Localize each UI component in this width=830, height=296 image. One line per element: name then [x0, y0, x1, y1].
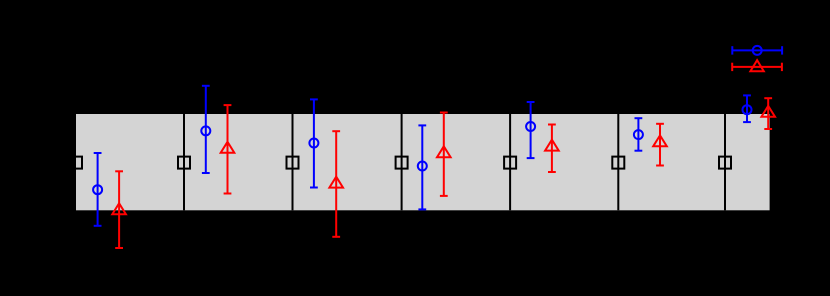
group 5 red error bar	[548, 125, 556, 173]
divider line 5	[617, 114, 619, 210]
square marker 7	[719, 157, 731, 169]
group 2 blue error bar	[202, 86, 210, 173]
group 1 red error bar	[115, 171, 123, 248]
divider line 3	[401, 114, 403, 210]
group 1 red triangle marker	[112, 203, 126, 214]
group 2 blue circle marker	[201, 126, 210, 135]
group 4 red error bar	[440, 113, 448, 196]
group 1 blue circle marker	[93, 185, 102, 194]
group 4 red triangle marker	[437, 146, 451, 157]
group 7 blue circle marker	[743, 105, 752, 114]
legend blue circle marker	[753, 46, 762, 55]
group 3 blue circle marker	[309, 139, 318, 148]
group 7 red error bar	[764, 98, 772, 129]
group 3 blue error bar	[310, 99, 318, 187]
square marker 2	[178, 157, 190, 169]
group 2 red triangle marker	[221, 142, 235, 153]
group 7 blue error bar	[743, 95, 751, 122]
divider line 6	[724, 114, 726, 210]
group 6 blue error bar	[635, 118, 643, 151]
group 5 blue circle marker	[526, 122, 535, 131]
divider line 2	[292, 114, 294, 210]
divider line 4	[509, 114, 511, 210]
group 3 red error bar	[332, 131, 340, 237]
group 5 red triangle marker	[545, 140, 559, 151]
legend red error bar	[732, 63, 782, 71]
group 7 red triangle marker	[761, 106, 775, 117]
group 6 red error bar	[656, 124, 664, 166]
divider line 1	[183, 114, 185, 210]
group 4 blue circle marker	[418, 162, 427, 171]
group 6 blue circle marker	[634, 130, 643, 139]
square marker 3	[287, 157, 299, 169]
group 6 red triangle marker	[653, 135, 667, 146]
legend blue error bar	[732, 46, 782, 54]
square marker 1	[70, 157, 82, 169]
group 3 red triangle marker	[329, 177, 343, 188]
square marker 4	[396, 157, 408, 169]
group 5 blue error bar	[527, 102, 535, 158]
group 1 blue error bar	[94, 153, 102, 226]
group 4 blue error bar	[418, 125, 426, 209]
group 2 red error bar	[224, 105, 232, 193]
square marker 5	[504, 157, 516, 169]
square marker 6	[612, 157, 624, 169]
plot background band	[76, 114, 770, 210]
legend red triangle marker	[750, 60, 763, 71]
